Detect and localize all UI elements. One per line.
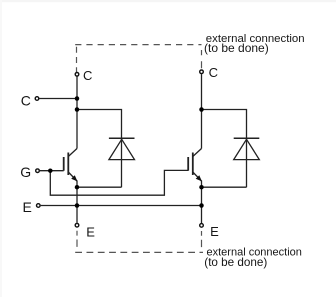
svg-text:E: E: [86, 225, 95, 240]
transistor Q1 collector diagonal: [68, 149, 77, 157]
svg-text:E: E: [210, 224, 219, 239]
page left faint border: [0, 0, 2, 297]
junction node D2 top: [199, 107, 204, 112]
dashed drop to C1 terminal: [76, 47, 78, 72]
wire emitter vertical Q2: [201, 181, 203, 224]
wire emitter vertical Q1: [76, 181, 78, 223]
transistor Q1 body bar: [67, 153, 69, 176]
svg-text:C: C: [21, 92, 31, 108]
svg-text:E: E: [23, 199, 32, 215]
transistor Q2 emitter arrow: [196, 175, 202, 181]
transistor Q2 gate bar: [187, 157, 189, 171]
svg-text:C: C: [209, 65, 218, 80]
wire diode D1 bottom to emitter node: [77, 186, 122, 188]
svg-text:C: C: [83, 68, 92, 83]
junction node C left on Q1 collector: [75, 96, 80, 101]
wire diode D2 top branch: [202, 110, 247, 188]
transistor Q2 emitter diagonal: [193, 172, 202, 181]
wire diode D2 bottom to emitter node: [202, 186, 247, 188]
terminal G: [36, 169, 40, 173]
terminal C left: [35, 97, 39, 101]
transistor Q2 collector diagonal: [193, 149, 202, 157]
junction node Q2 on E rail: [199, 203, 204, 208]
terminal E1 bottom: [75, 223, 79, 227]
wire E rail: [41, 205, 202, 207]
page top faint border: [0, 0, 336, 2]
terminal E left: [37, 204, 41, 208]
dashed drop from E1 terminal: [76, 231, 78, 248]
junction node D1 top: [75, 107, 80, 112]
dashed drop from E2 terminal: [201, 231, 203, 248]
wire diode D1 top branch: [77, 110, 122, 188]
diode D2 cathode bar: [234, 137, 260, 139]
svg-text:G: G: [20, 164, 31, 180]
wire gate auxiliary bus to Q2: [50, 170, 188, 195]
svg-text:(to be done): (to be done): [204, 256, 267, 269]
diode D2 triangle: [234, 139, 260, 159]
svg-text:(to be done): (to be done): [204, 41, 269, 55]
junction node Q2 emitter: [199, 185, 204, 190]
wire collector vertical Q1: [76, 77, 78, 149]
junction node gate tee: [48, 168, 53, 173]
terminal E2 bottom: [200, 224, 204, 228]
transistor Q2 body bar: [192, 153, 194, 176]
transistor Q1 gate bar: [63, 157, 65, 171]
terminal C1 top: [75, 73, 79, 77]
junction node Q1 emitter: [75, 185, 80, 190]
dashed drop to C2 terminal: [201, 50, 203, 69]
junction node Q1 on E rail: [75, 203, 80, 208]
transistor Q1 emitter arrow: [71, 175, 77, 181]
transistor Q1 emitter diagonal: [68, 172, 77, 181]
diode D1 triangle: [109, 139, 135, 159]
diode D1 cathode bar: [109, 137, 135, 139]
dashed external connection top horizontal: [75, 44, 201, 46]
wire C left terminal to collector node: [39, 98, 77, 100]
terminal C2 top: [200, 70, 204, 74]
wire gate lead G to Q1: [40, 170, 64, 172]
wire collector vertical Q2: [201, 74, 203, 148]
dashed external connection bottom horizontal: [75, 251, 203, 253]
